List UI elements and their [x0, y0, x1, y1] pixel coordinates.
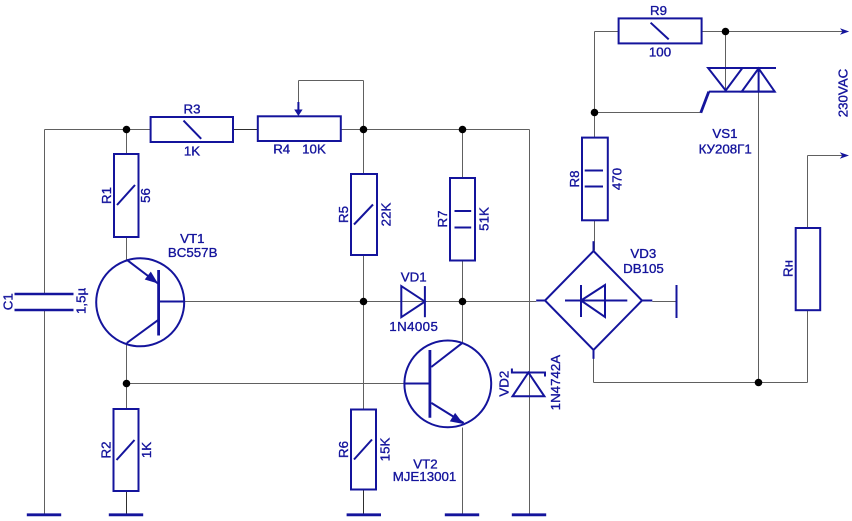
svg-text:КУ208Г1: КУ208Г1 [699, 141, 752, 156]
junction node R5 top [360, 126, 368, 134]
svg-text:R2: R2 [99, 442, 114, 459]
wire R9 left corner horizontal [595, 31, 619, 33]
svg-text:R6: R6 [336, 441, 351, 458]
svg-text:R3: R3 [184, 101, 201, 116]
svg-text:R7: R7 [435, 211, 450, 228]
svg-text:Rн: Rн [781, 260, 796, 277]
wire VT2 base line [127, 383, 431, 385]
wire triac MT2 vertical [725, 32, 727, 90]
junction node R8 top gate [591, 109, 599, 117]
wire R4 to corner VD2 branch [341, 129, 530, 131]
resistor R3 [151, 101, 233, 158]
bridge rectifier VD3 [536, 241, 664, 359]
svg-text:51K: 51K [477, 207, 492, 231]
wire R1 bottom to VT1 emitter [126, 237, 128, 260]
transistor VT2 [393, 341, 491, 485]
svg-text:VD3: VD3 [630, 246, 656, 261]
svg-text:VD1: VD1 [401, 269, 427, 284]
wire R2 top lead [126, 384, 128, 410]
svg-text:22K: 22K [379, 203, 394, 227]
wire R8 bottom to bridge top [594, 220, 596, 250]
junction node VT2 collector [459, 298, 467, 306]
junction node triac MT2 [722, 28, 730, 36]
wire Rn top vertical [807, 156, 809, 229]
resistor R9 [619, 3, 702, 60]
wire left rail lower [44, 310, 46, 514]
mains arrow bottom [840, 152, 849, 158]
wire node to R6 top [363, 302, 365, 410]
wire VT1 collector to node [126, 343, 128, 384]
svg-text:R4: R4 [273, 142, 290, 157]
terminal bar right of bridge [676, 285, 678, 318]
junction node R5 bottom [360, 298, 368, 306]
svg-text:100: 100 [649, 45, 671, 60]
wire VT1 base to bridge [184, 301, 536, 303]
wire VT2 emitter to ground [462, 428, 464, 515]
svg-text:10K: 10K [302, 142, 326, 157]
transistor VT1 [96, 231, 217, 346]
svg-text:1K: 1K [139, 442, 154, 458]
svg-text:1N4005: 1N4005 [389, 319, 438, 334]
wire VT2 collector [462, 302, 464, 344]
ground symbol R2 [109, 513, 143, 516]
wire VD2 branch vertical [529, 130, 531, 515]
ground symbol VD2 [512, 513, 546, 516]
wire R5 top lead [363, 130, 365, 175]
potentiometer R4 [258, 102, 341, 157]
wire R1 top lead [126, 130, 128, 155]
wire left rail upper [44, 130, 46, 295]
wire R5 bottom lead [363, 255, 365, 302]
svg-text:MJE13001: MJE13001 [393, 469, 457, 484]
resistor R7 [435, 178, 492, 261]
ground symbol R6 [347, 513, 381, 516]
svg-text:VS1: VS1 [712, 126, 737, 141]
resistor Rn load [781, 228, 821, 310]
resistor R2 [99, 409, 155, 491]
wire to Rn bottom [807, 310, 809, 382]
svg-text:1N4742A: 1N4742A [548, 355, 563, 411]
resistor R5 [336, 174, 394, 255]
mains arrow top [840, 28, 849, 34]
capacitor C1 [1, 287, 89, 313]
wire R6 bottom lead [363, 489, 365, 514]
wire R4 wiper horizontal [299, 80, 364, 82]
wire R9 left corner vertical to R8 [594, 32, 596, 138]
svg-text:VD2: VD2 [497, 371, 512, 397]
svg-text:R1: R1 [99, 187, 114, 204]
triac VS1 [699, 68, 776, 156]
wire R4 wiper vertical [298, 81, 300, 106]
svg-text:R8: R8 [567, 171, 582, 188]
resistor R1 [99, 154, 153, 237]
wire R2 bottom lead [126, 491, 128, 514]
wire R9 right to mains arrow [702, 31, 843, 33]
wire top-left horizontal [45, 129, 151, 131]
wire R3 to R4 [233, 129, 258, 131]
svg-text:1,5µ: 1,5µ [74, 287, 89, 313]
svg-text:230VAC: 230VAC [836, 68, 851, 117]
wire bridge right to terminal [652, 301, 676, 303]
svg-text:56: 56 [138, 188, 153, 203]
wire triac MT1 vertical [758, 92, 760, 383]
svg-text:1K: 1K [184, 144, 200, 159]
wire wiper down to node [363, 81, 365, 130]
svg-text:C1: C1 [1, 293, 16, 310]
svg-text:DB105: DB105 [623, 261, 664, 276]
svg-text:R9: R9 [650, 3, 667, 18]
resistor R8 [567, 138, 625, 221]
ground symbol left rail [27, 513, 61, 516]
wire bridge bottom horizontal [594, 382, 808, 384]
ground symbol VT2 [445, 513, 479, 516]
junction node R1 top [123, 126, 131, 134]
svg-text:R5: R5 [336, 206, 351, 223]
wire R7 top lead [462, 130, 464, 179]
wire Rn top to arrow [808, 155, 844, 157]
wire triac gate horizontal [595, 112, 701, 114]
wire R7 bottom lead [462, 261, 464, 302]
resistor R6 [336, 410, 393, 490]
junction node load return [755, 379, 763, 387]
svg-text:VT1: VT1 [180, 231, 204, 246]
junction node R7 top [459, 126, 467, 134]
wire bridge bottom vertical [593, 352, 595, 383]
svg-text:470: 470 [610, 168, 625, 190]
svg-text:BC557B: BC557B [168, 245, 218, 260]
svg-text:15K: 15K [378, 438, 393, 462]
diode VD1 [389, 269, 438, 334]
zener diode VD2 [497, 355, 564, 411]
junction node VT1 collector [123, 380, 131, 388]
